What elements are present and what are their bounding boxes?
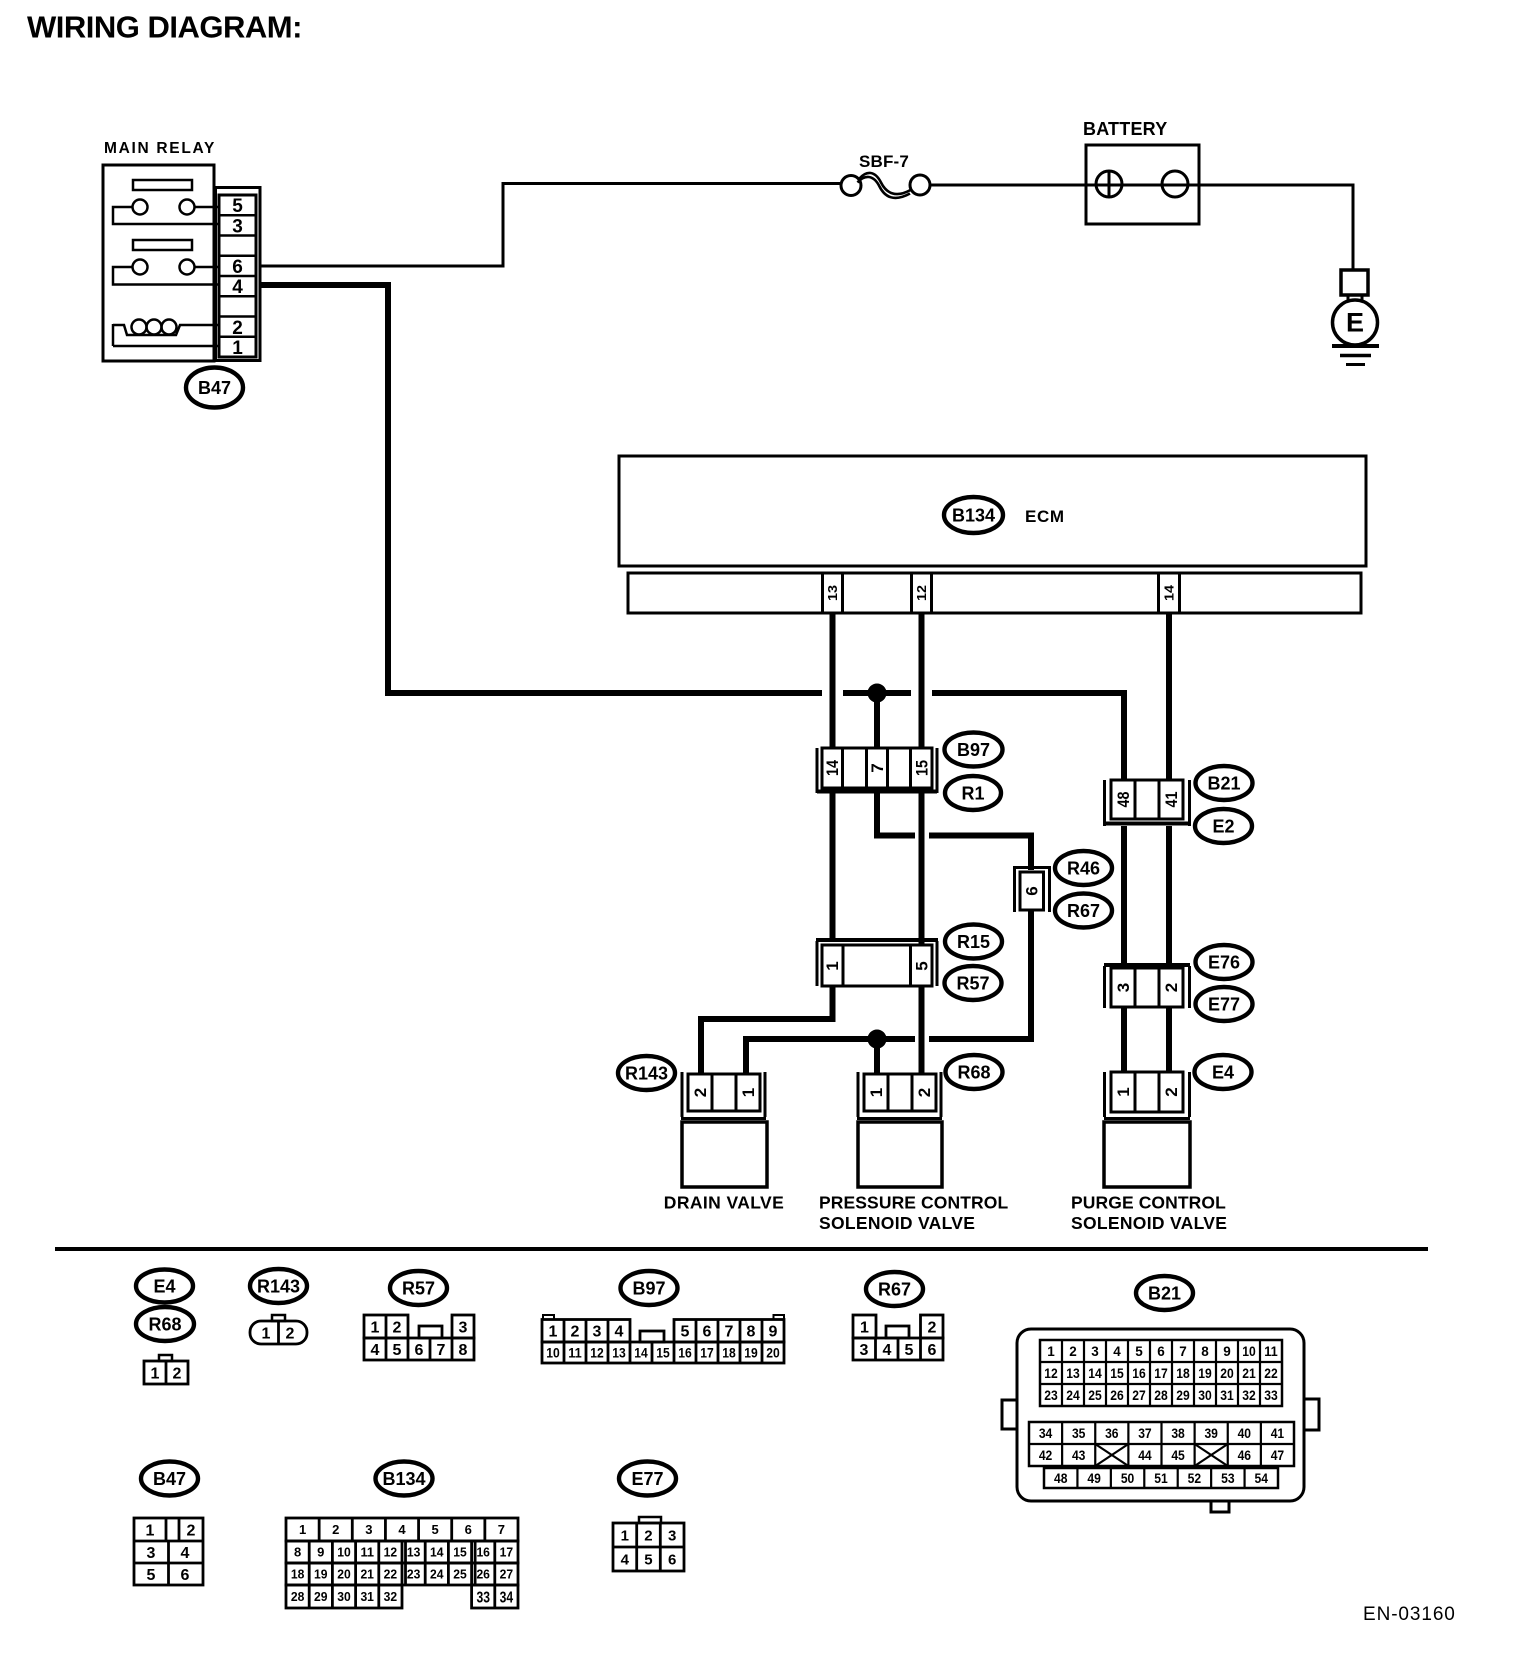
svg-text:14: 14 (430, 1545, 444, 1560)
svg-text:B134: B134 (952, 505, 995, 525)
svg-text:31: 31 (1220, 1388, 1234, 1403)
svg-text:41: 41 (1162, 792, 1181, 808)
svg-text:B134: B134 (382, 1469, 425, 1489)
svg-text:39: 39 (1204, 1426, 1218, 1441)
connector label R57 (pinout) (390, 1271, 447, 1305)
wire: relay pin 4 power bus (260, 282, 1128, 780)
main relay connector strip B47 pins 5,3,6,4,2,1 (216, 188, 261, 361)
svg-text:42: 42 (1039, 1448, 1053, 1463)
svg-text:2: 2 (571, 1323, 580, 1340)
svg-text:R1: R1 (961, 783, 984, 803)
connector label R1 (945, 776, 1001, 810)
svg-text:11: 11 (568, 1345, 582, 1360)
svg-text:7: 7 (725, 1323, 734, 1340)
svg-text:18: 18 (722, 1345, 736, 1360)
svg-text:20: 20 (766, 1345, 780, 1360)
svg-text:24: 24 (1066, 1388, 1080, 1403)
svg-text:7: 7 (1179, 1344, 1187, 1359)
connector R143 pins 2,1 (681, 1072, 766, 1119)
svg-text:6: 6 (668, 1551, 676, 1568)
svg-text:18: 18 (291, 1567, 305, 1582)
svg-text:25: 25 (453, 1567, 467, 1582)
svg-text:27: 27 (500, 1567, 514, 1582)
svg-text:41: 41 (1271, 1426, 1285, 1441)
svg-text:R68: R68 (148, 1314, 181, 1334)
svg-text:1: 1 (621, 1527, 629, 1544)
svg-text:13: 13 (612, 1345, 626, 1360)
svg-text:2: 2 (915, 1088, 934, 1097)
svg-text:4: 4 (232, 277, 243, 298)
wire: relay pin 6 to fuse (260, 184, 842, 267)
svg-text:16: 16 (678, 1345, 692, 1360)
svg-text:E4: E4 (1212, 1062, 1234, 1082)
svg-text:15: 15 (1110, 1366, 1124, 1381)
svg-text:16: 16 (476, 1545, 490, 1560)
svg-text:4: 4 (621, 1551, 630, 1568)
svg-text:48: 48 (1114, 792, 1133, 808)
svg-text:15: 15 (453, 1545, 467, 1560)
R67 pinout 1-6 (853, 1315, 943, 1360)
wire: B97 pin 15 to R15 pin 5 (919, 793, 925, 945)
svg-text:3: 3 (860, 1342, 869, 1359)
svg-text:PURGE CONTROL: PURGE CONTROL (1071, 1193, 1226, 1213)
wire: R15 pin 1 to R143 pin 2 (701, 986, 836, 1074)
connector B97/R1 pins 14,7,15 (817, 748, 937, 793)
svg-text:2: 2 (173, 1365, 182, 1382)
svg-text:1: 1 (739, 1088, 758, 1097)
svg-text:6: 6 (415, 1342, 424, 1359)
B47 pinout 1-6 (134, 1518, 203, 1585)
svg-text:E: E (1346, 308, 1364, 338)
B21 pinout row 48-54 (1044, 1468, 1278, 1488)
svg-text:E2: E2 (1212, 816, 1234, 836)
connector label E76 (1196, 945, 1253, 979)
svg-text:3: 3 (365, 1522, 372, 1537)
svg-text:5: 5 (912, 961, 931, 970)
ECM pin strip (628, 573, 1361, 613)
B21 pinout grid 1-33 (1040, 1340, 1282, 1406)
svg-text:R15: R15 (957, 932, 990, 952)
svg-text:DRAIN VALVE: DRAIN VALVE (664, 1193, 784, 1213)
svg-text:9: 9 (317, 1545, 324, 1560)
svg-text:6: 6 (1157, 1344, 1165, 1359)
svg-text:53: 53 (1221, 1471, 1235, 1486)
connector label B97 (945, 733, 1003, 767)
svg-text:20: 20 (337, 1567, 351, 1582)
wire: R15 pin 5 to R68 pin 2 (919, 986, 925, 1074)
svg-text:38: 38 (1171, 1426, 1185, 1441)
wire: junction to R68 pin 1 (874, 1039, 880, 1074)
svg-text:2: 2 (393, 1319, 402, 1336)
svg-text:17: 17 (500, 1545, 514, 1560)
connector label B47 (pinout) (141, 1462, 198, 1496)
connector label R67 (pinout) (866, 1272, 923, 1306)
connector label B47 (186, 368, 243, 408)
svg-text:49: 49 (1087, 1471, 1101, 1486)
svg-text:7: 7 (868, 763, 887, 772)
connector label B21 (pinout) (1136, 1276, 1193, 1310)
junction node on bus (869, 685, 886, 702)
svg-text:5: 5 (393, 1342, 402, 1359)
connector E76/E77 pins 3,2 (1104, 965, 1190, 1008)
B97 pinout 1-20 (542, 1315, 784, 1363)
svg-text:32: 32 (384, 1589, 398, 1604)
svg-text:3: 3 (593, 1323, 602, 1340)
svg-text:2: 2 (232, 318, 243, 339)
svg-text:2: 2 (332, 1522, 339, 1537)
svg-text:2: 2 (1162, 983, 1181, 992)
svg-text:4: 4 (398, 1522, 406, 1537)
svg-text:6: 6 (181, 1567, 190, 1584)
svg-text:33: 33 (476, 1589, 490, 1606)
svg-text:12: 12 (1044, 1366, 1058, 1381)
wire: ECM pin 14 down (1166, 613, 1172, 780)
B21 pinout grid 34-47 (1029, 1422, 1294, 1466)
svg-text:31: 31 (360, 1589, 374, 1604)
svg-text:R57: R57 (402, 1278, 435, 1298)
connector label R67 (1055, 894, 1112, 928)
svg-text:35: 35 (1072, 1426, 1086, 1441)
svg-text:14: 14 (1088, 1366, 1102, 1381)
svg-text:4: 4 (883, 1342, 892, 1359)
svg-text:29: 29 (314, 1589, 328, 1604)
svg-text:6: 6 (1022, 886, 1041, 895)
svg-text:29: 29 (1176, 1388, 1190, 1403)
svg-text:9: 9 (769, 1323, 778, 1340)
ECM box B134 (619, 456, 1366, 566)
svg-text:2: 2 (286, 1325, 295, 1342)
svg-text:8: 8 (747, 1323, 756, 1340)
svg-text:28: 28 (291, 1589, 305, 1604)
svg-text:23: 23 (407, 1567, 421, 1582)
connector E4 pins 1,2 (1104, 1072, 1190, 1119)
separator line (55, 1247, 1428, 1251)
svg-text:10: 10 (337, 1545, 351, 1560)
svg-text:36: 36 (1105, 1426, 1119, 1441)
svg-text:48: 48 (1054, 1471, 1068, 1486)
svg-text:45: 45 (1171, 1448, 1185, 1463)
svg-text:51: 51 (1154, 1471, 1168, 1486)
svg-text:6: 6 (703, 1323, 712, 1340)
svg-text:B21: B21 (1148, 1283, 1181, 1303)
ground E (1332, 270, 1379, 365)
svg-text:3: 3 (668, 1527, 676, 1544)
svg-text:3: 3 (1091, 1344, 1099, 1359)
svg-text:4: 4 (615, 1323, 624, 1340)
svg-text:46: 46 (1238, 1448, 1252, 1463)
connector label B97 (pinout) (621, 1271, 678, 1305)
svg-text:R46: R46 (1067, 858, 1100, 878)
svg-text:2: 2 (691, 1088, 710, 1097)
svg-text:R67: R67 (1067, 901, 1100, 921)
wire: connector 6 down and left to junction (746, 910, 1034, 1074)
svg-text:6: 6 (232, 257, 243, 278)
svg-text:5: 5 (905, 1342, 914, 1359)
wire: battery to ground E (1199, 185, 1353, 270)
svg-text:1: 1 (299, 1522, 306, 1537)
svg-text:7: 7 (498, 1522, 505, 1537)
svg-text:R143: R143 (625, 1063, 668, 1083)
svg-text:12: 12 (590, 1345, 604, 1360)
wire: B97 pin 7 to connector 6 (874, 793, 1034, 870)
connector label R46 (1055, 851, 1112, 885)
svg-text:1: 1 (262, 1325, 271, 1342)
svg-text:7: 7 (437, 1342, 446, 1359)
svg-text:16: 16 (1132, 1366, 1146, 1381)
svg-text:PRESSURE CONTROL: PRESSURE CONTROL (819, 1193, 1008, 1213)
svg-text:19: 19 (1198, 1366, 1212, 1381)
connector label E77 (1196, 987, 1253, 1021)
wire: E77 3 to E4 1 (1121, 1007, 1127, 1072)
svg-text:1: 1 (860, 1319, 869, 1336)
main relay B47 box (103, 165, 219, 361)
svg-text:23: 23 (1044, 1388, 1058, 1403)
connector label R57 (945, 966, 1002, 1000)
svg-text:27: 27 (1132, 1388, 1146, 1403)
connector label R143 (pinout) (250, 1269, 307, 1303)
battery (1083, 119, 1199, 224)
svg-text:R143: R143 (257, 1276, 300, 1296)
svg-text:17: 17 (700, 1345, 714, 1360)
svg-text:17: 17 (1154, 1366, 1168, 1381)
svg-text:B47: B47 (153, 1469, 186, 1489)
svg-text:44: 44 (1138, 1448, 1152, 1463)
svg-text:54: 54 (1255, 1471, 1269, 1486)
svg-text:21: 21 (360, 1567, 374, 1582)
svg-text:5: 5 (147, 1567, 156, 1584)
connector B21/E2 pins 48,41 (1104, 780, 1190, 826)
svg-text:5: 5 (232, 196, 243, 217)
svg-text:1: 1 (549, 1323, 558, 1340)
svg-text:SBF-7: SBF-7 (859, 152, 909, 171)
svg-text:R67: R67 (878, 1279, 911, 1299)
wire: ECM pin 13 down (830, 613, 836, 748)
wire: ECM pin 12 down (919, 613, 925, 748)
connector label B134 (pinout) (376, 1462, 433, 1496)
svg-text:37: 37 (1138, 1426, 1152, 1441)
svg-text:5: 5 (432, 1522, 439, 1537)
svg-text:32: 32 (1242, 1388, 1256, 1403)
svg-text:EN-03160: EN-03160 (1363, 1604, 1456, 1625)
svg-text:1: 1 (151, 1365, 160, 1382)
svg-text:9: 9 (1223, 1344, 1231, 1359)
E77 pinout 1-6 (613, 1517, 684, 1571)
svg-text:2: 2 (1069, 1344, 1077, 1359)
svg-text:SOLENOID VALVE: SOLENOID VALVE (819, 1213, 975, 1233)
svg-text:BATTERY: BATTERY (1083, 119, 1167, 139)
drain valve body (682, 1122, 767, 1187)
svg-text:B97: B97 (632, 1278, 665, 1298)
svg-text:14: 14 (823, 760, 842, 776)
svg-text:22: 22 (1264, 1366, 1278, 1381)
svg-text:R68: R68 (957, 1062, 990, 1082)
connector label E4 (1195, 1055, 1252, 1089)
svg-text:21: 21 (1242, 1366, 1256, 1381)
svg-text:13: 13 (407, 1545, 421, 1560)
connector label E2 (1195, 809, 1252, 843)
connector R46/R67 pin 6 (1014, 866, 1050, 912)
svg-text:R57: R57 (956, 973, 989, 993)
svg-text:10: 10 (546, 1345, 560, 1360)
svg-text:52: 52 (1188, 1471, 1202, 1486)
junction node lower (869, 1031, 886, 1048)
svg-text:47: 47 (1271, 1448, 1285, 1463)
svg-text:22: 22 (384, 1567, 398, 1582)
wire: fuse to battery (930, 184, 1086, 187)
svg-text:E76: E76 (1208, 952, 1240, 972)
svg-text:30: 30 (337, 1589, 351, 1604)
svg-text:4: 4 (1113, 1344, 1121, 1359)
svg-text:13: 13 (825, 585, 840, 601)
svg-text:2: 2 (644, 1527, 652, 1544)
svg-text:50: 50 (1121, 1471, 1135, 1486)
svg-text:24: 24 (430, 1567, 444, 1582)
svg-text:8: 8 (294, 1545, 301, 1560)
svg-text:26: 26 (476, 1567, 490, 1582)
svg-text:14: 14 (1162, 584, 1177, 601)
svg-text:MAIN RELAY: MAIN RELAY (104, 140, 216, 157)
svg-text:19: 19 (744, 1345, 758, 1360)
R57 pinout 1-8 (364, 1315, 474, 1360)
svg-text:43: 43 (1072, 1448, 1086, 1463)
svg-text:5: 5 (644, 1551, 652, 1568)
B134 pinout 1-34 (286, 1518, 518, 1608)
svg-text:E4: E4 (153, 1276, 175, 1296)
svg-text:B21: B21 (1207, 773, 1240, 793)
R143 pinout 1,2 (250, 1315, 307, 1344)
svg-text:30: 30 (1198, 1388, 1212, 1403)
svg-text:1: 1 (371, 1319, 380, 1336)
svg-text:3: 3 (459, 1319, 468, 1336)
svg-text:2: 2 (187, 1522, 196, 1539)
svg-text:34: 34 (1039, 1426, 1053, 1441)
R68 pinout 1,2 (144, 1355, 188, 1384)
wire: B97 pin 14 to R15 pin 1 (830, 793, 836, 940)
wire: B21 41 to E76 2 (1166, 826, 1172, 963)
svg-text:1: 1 (867, 1088, 886, 1097)
wire: B21 48 to E76 3 (1121, 826, 1127, 963)
svg-text:3: 3 (1114, 983, 1133, 992)
connector label E77 (pinout) (619, 1462, 676, 1496)
connector label R143 (618, 1056, 675, 1090)
svg-text:11: 11 (360, 1545, 374, 1560)
connector R15/R57 pins 1,5 (816, 940, 938, 986)
svg-text:5: 5 (1135, 1344, 1143, 1359)
svg-text:8: 8 (1201, 1344, 1209, 1359)
svg-text:6: 6 (928, 1342, 937, 1359)
wire: E77 2 to E4 2 (1166, 1007, 1172, 1072)
connector R68 pins 1,2 (857, 1072, 942, 1119)
wire: bus junction to B97 pin 7 (874, 693, 880, 748)
svg-text:15: 15 (656, 1345, 670, 1360)
svg-text:1: 1 (146, 1522, 155, 1539)
svg-text:4: 4 (181, 1545, 190, 1562)
svg-text:10: 10 (1242, 1344, 1256, 1359)
svg-text:1: 1 (232, 338, 243, 359)
svg-text:B97: B97 (957, 740, 990, 760)
svg-text:11: 11 (1264, 1344, 1278, 1359)
purge control label (1071, 1193, 1227, 1234)
svg-text:14: 14 (634, 1345, 648, 1360)
svg-text:1: 1 (823, 961, 842, 970)
svg-text:6: 6 (465, 1522, 472, 1537)
svg-text:40: 40 (1238, 1426, 1252, 1441)
pressure control label (819, 1193, 1008, 1234)
svg-text:26: 26 (1110, 1388, 1124, 1403)
svg-text:20: 20 (1220, 1366, 1234, 1381)
svg-text:2: 2 (1162, 1087, 1181, 1096)
svg-text:25: 25 (1088, 1388, 1102, 1403)
svg-text:5: 5 (681, 1323, 690, 1340)
svg-text:ECM: ECM (1025, 507, 1065, 526)
connector label E4 (pinout) (136, 1270, 193, 1303)
connector label B134 (944, 497, 1003, 533)
svg-text:SOLENOID VALVE: SOLENOID VALVE (1071, 1213, 1227, 1233)
svg-text:3: 3 (147, 1545, 156, 1562)
svg-text:12: 12 (914, 585, 929, 601)
svg-text:13: 13 (1066, 1366, 1080, 1381)
svg-text:1: 1 (1047, 1344, 1055, 1359)
svg-text:19: 19 (314, 1567, 328, 1582)
svg-text:4: 4 (371, 1342, 380, 1359)
fuse SBF-7 (841, 152, 930, 198)
svg-text:3: 3 (232, 216, 243, 237)
purge control valve body (1104, 1122, 1190, 1187)
connector label B21 (1196, 766, 1253, 800)
svg-text:WIRING DIAGRAM:: WIRING DIAGRAM: (27, 10, 302, 45)
connector label R68 (946, 1055, 1003, 1089)
svg-text:2: 2 (928, 1319, 937, 1336)
svg-text:33: 33 (1264, 1388, 1278, 1403)
connector label R15 (945, 925, 1002, 959)
svg-text:E77: E77 (1208, 994, 1240, 1014)
svg-text:8: 8 (459, 1342, 468, 1359)
svg-text:34: 34 (500, 1589, 514, 1606)
svg-text:12: 12 (384, 1545, 398, 1560)
svg-text:1: 1 (1114, 1087, 1133, 1096)
svg-text:15: 15 (912, 760, 931, 776)
svg-text:28: 28 (1154, 1388, 1168, 1403)
svg-text:E77: E77 (631, 1469, 663, 1489)
pressure control valve body (858, 1122, 942, 1187)
svg-text:B47: B47 (198, 378, 231, 398)
connector label R68 (pinout) (136, 1307, 194, 1341)
B21 pinout housing (1002, 1329, 1319, 1512)
svg-text:18: 18 (1176, 1366, 1190, 1381)
